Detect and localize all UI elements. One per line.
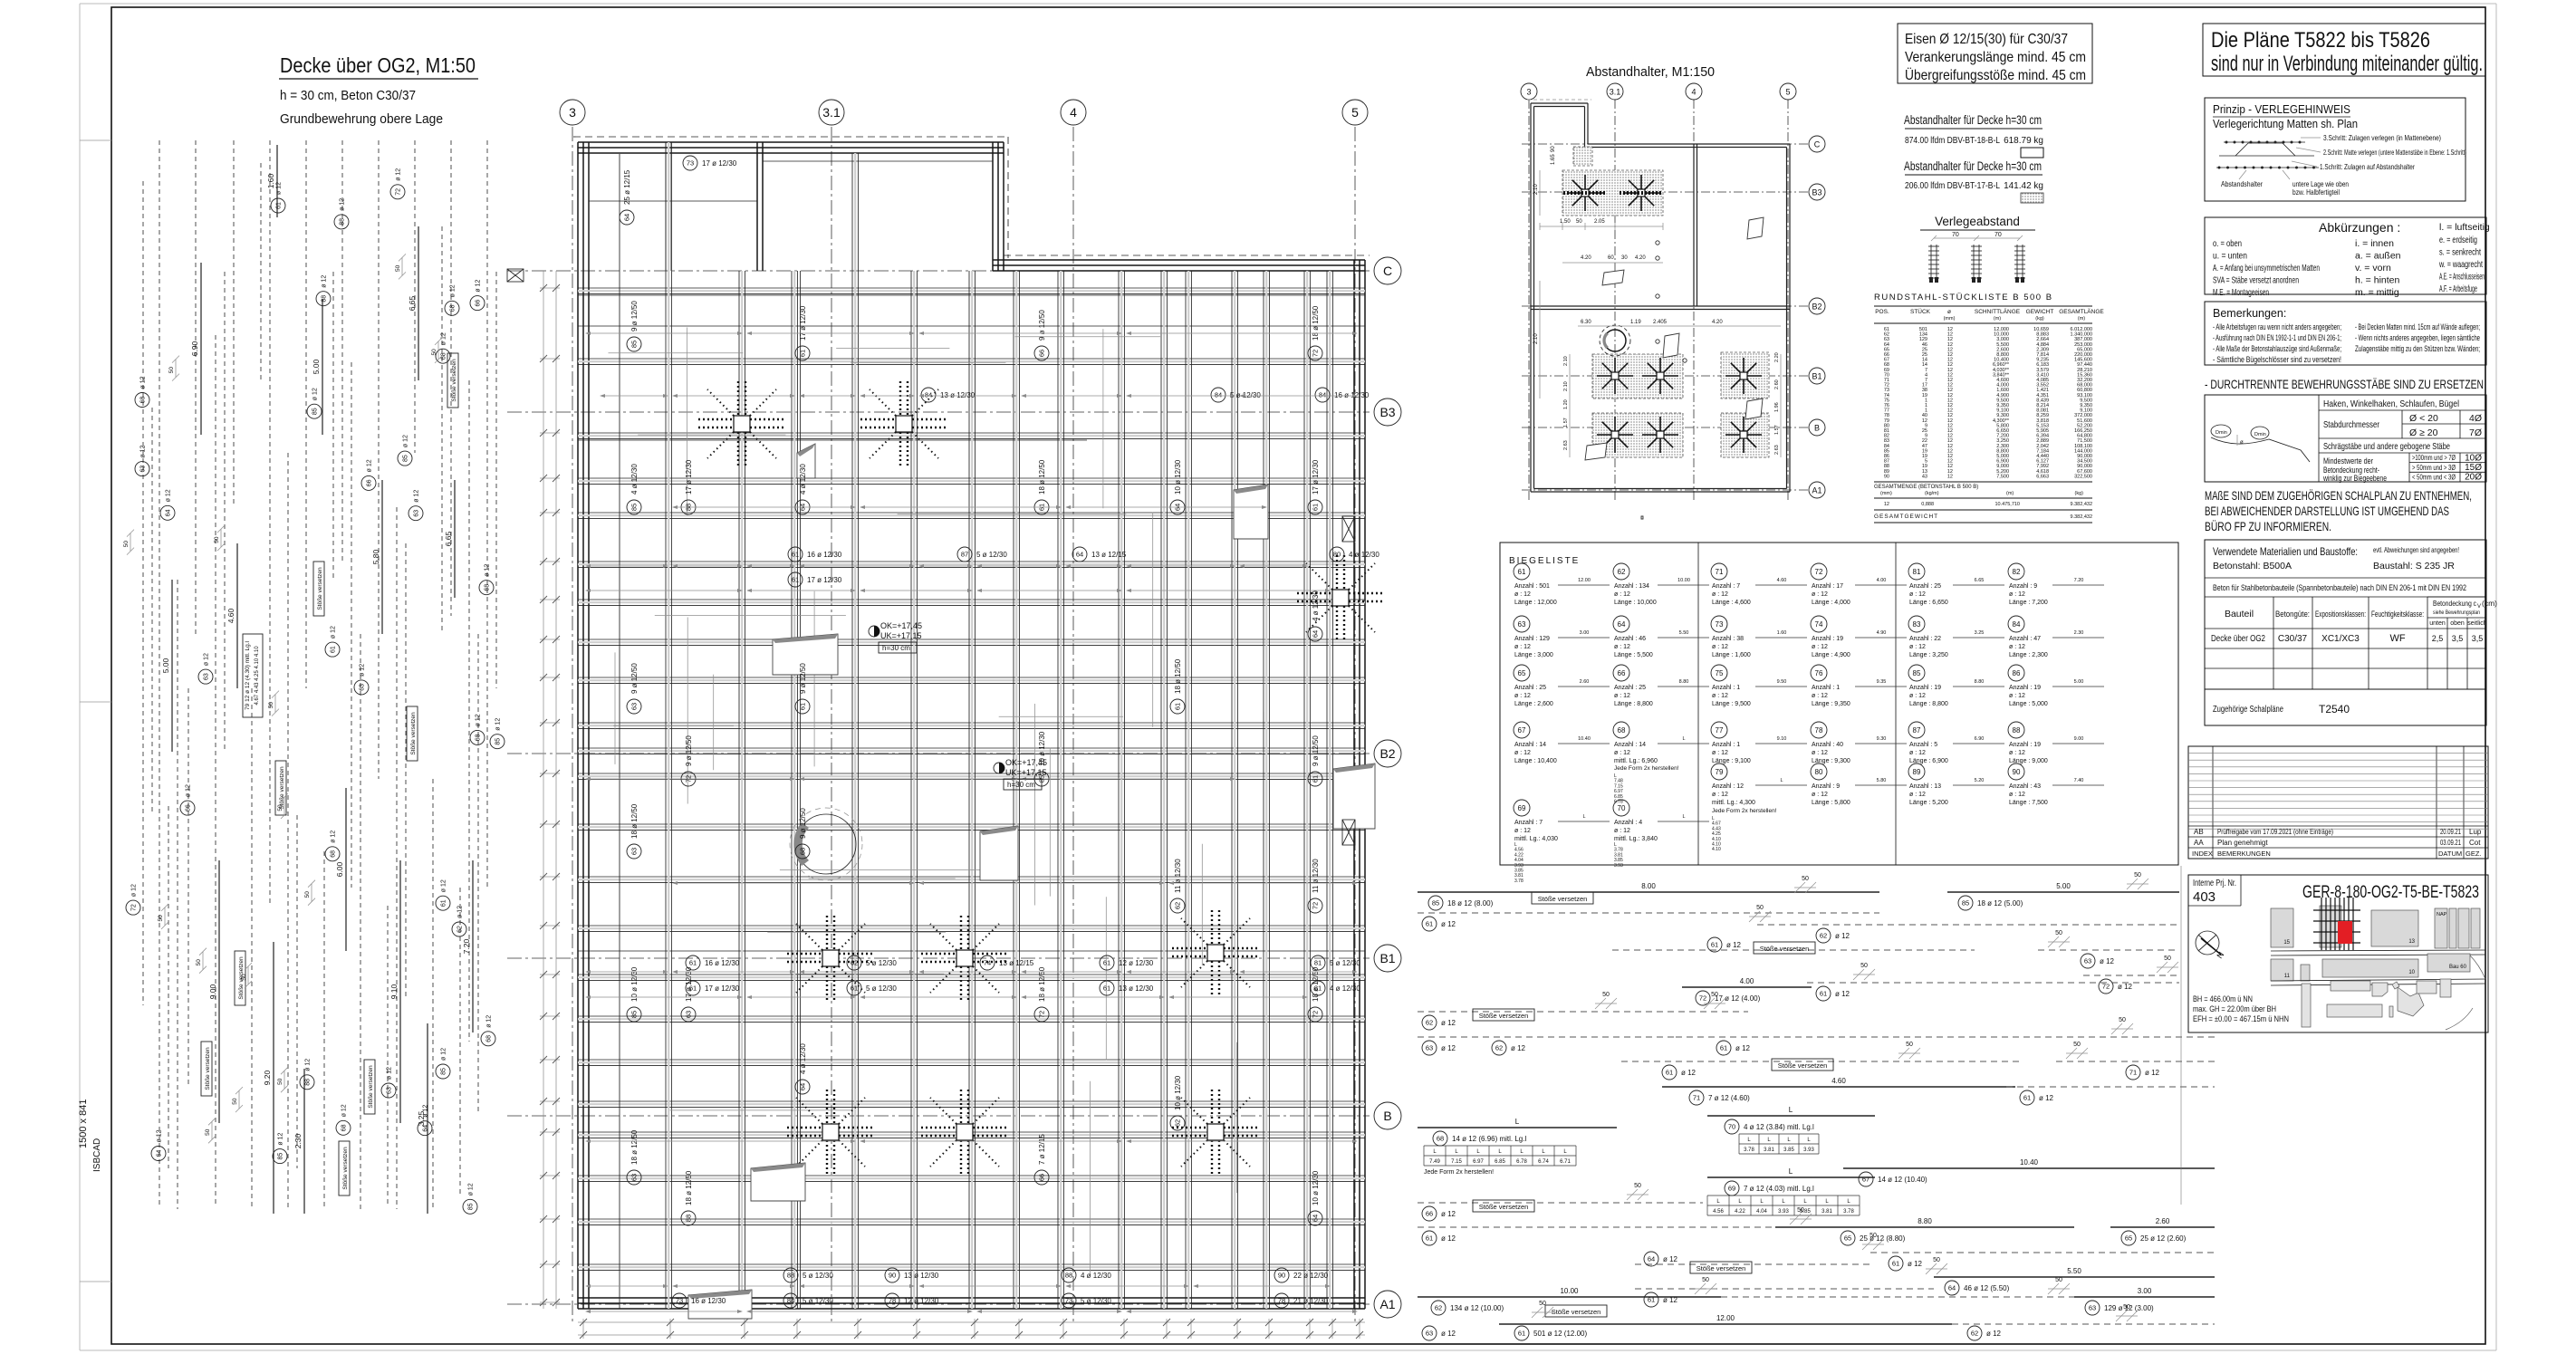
svg-text:7.49: 7.49 bbox=[1429, 1159, 1440, 1165]
svg-text:25 ø 12/15: 25 ø 12/15 bbox=[623, 169, 631, 205]
svg-text:BEMERKUNGEN: BEMERKUNGEN bbox=[2217, 850, 2271, 858]
svg-text:4 ø 12/30: 4 ø 12/30 bbox=[1349, 551, 1379, 559]
svg-text:66: 66 bbox=[1038, 350, 1046, 357]
svg-text:ø : 12: ø : 12 bbox=[1514, 828, 1531, 834]
svg-text:Stöße versetzen: Stöße versetzen bbox=[368, 1065, 374, 1109]
svg-text:ø 12: ø 12 bbox=[485, 564, 491, 577]
svg-text:UK=+17,15: UK=+17,15 bbox=[880, 631, 922, 640]
svg-text:21 ø 12/30: 21 ø 12/30 bbox=[1293, 1297, 1329, 1305]
svg-text:L: L bbox=[1780, 778, 1783, 783]
svg-text:15: 15 bbox=[2283, 940, 2290, 946]
svg-text:3.25: 3.25 bbox=[1975, 630, 1985, 636]
svg-text:DATUM: DATUM bbox=[2438, 850, 2462, 858]
svg-text:4.20: 4.20 bbox=[1712, 320, 1723, 325]
svg-text:75: 75 bbox=[1716, 669, 1724, 677]
svg-text:h. = hinten: h. = hinten bbox=[2355, 275, 2399, 286]
svg-text:WF: WF bbox=[2389, 633, 2405, 644]
svg-text:ø 12: ø 12 bbox=[331, 831, 337, 843]
svg-text:71: 71 bbox=[2129, 1069, 2137, 1077]
svg-text:ø 12: ø 12 bbox=[186, 784, 192, 797]
svg-text:16 ø 12/30: 16 ø 12/30 bbox=[705, 959, 740, 967]
svg-text:Anzahl : 47: Anzahl : 47 bbox=[2009, 636, 2041, 642]
svg-text:50: 50 bbox=[196, 959, 202, 966]
svg-text:11 ø 12/30: 11 ø 12/30 bbox=[1174, 859, 1182, 893]
svg-text:50: 50 bbox=[1602, 992, 1610, 998]
svg-text:Anzahl : 25: Anzahl : 25 bbox=[1909, 583, 1941, 590]
svg-text:12 ø 12/30: 12 ø 12/30 bbox=[904, 1297, 939, 1305]
svg-text:2.10: 2.10 bbox=[1533, 333, 1539, 344]
svg-text:62: 62 bbox=[851, 959, 858, 967]
svg-text:70: 70 bbox=[1952, 232, 1959, 238]
svg-text:Länge : 6,650: Länge : 6,650 bbox=[1909, 600, 1948, 606]
svg-text:9 ø 12/50: 9 ø 12/50 bbox=[1038, 310, 1046, 341]
svg-text:88: 88 bbox=[2013, 726, 2021, 735]
svg-text:4: 4 bbox=[1070, 105, 1077, 120]
svg-text:63: 63 bbox=[414, 510, 420, 517]
svg-text:72: 72 bbox=[1815, 568, 1823, 576]
svg-text:4.00: 4.00 bbox=[1740, 977, 1754, 985]
svg-text:71: 71 bbox=[1693, 1094, 1700, 1102]
svg-text:ø : 12: ø : 12 bbox=[1712, 591, 1728, 598]
svg-text:10 ø 12/30: 10 ø 12/30 bbox=[1312, 1170, 1320, 1205]
svg-text:61: 61 bbox=[441, 899, 447, 907]
svg-text:ø 12: ø 12 bbox=[1908, 1260, 1923, 1268]
svg-text:84: 84 bbox=[2013, 620, 2021, 629]
svg-text:GEZ.: GEZ. bbox=[2465, 850, 2482, 858]
svg-text:77: 77 bbox=[1716, 726, 1724, 735]
svg-text:BEI ABWEICHENDER DARSTELLUNG I: BEI ABWEICHENDER DARSTELLUNG IST UMGEHEN… bbox=[2205, 504, 2449, 518]
svg-text:3.81: 3.81 bbox=[1821, 1209, 1832, 1215]
svg-text:68: 68 bbox=[341, 1124, 348, 1131]
svg-text:Länge : 10,000: Länge : 10,000 bbox=[1614, 600, 1657, 606]
svg-text:A.E. = Anschlusseisen: A.E. = Anschlusseisen bbox=[2439, 272, 2485, 283]
svg-text:4.67 4.43 4.25 4.10 4.10: 4.67 4.43 4.25 4.10 4.10 bbox=[255, 646, 260, 706]
svg-text:80: 80 bbox=[1815, 768, 1823, 776]
svg-text:61: 61 bbox=[689, 959, 697, 967]
svg-text:8.80: 8.80 bbox=[1975, 679, 1985, 685]
svg-text:ø : 12: ø : 12 bbox=[1812, 644, 1828, 650]
svg-text:h=30 cm: h=30 cm bbox=[1007, 781, 1035, 789]
svg-text:Ø ≥ 20: Ø ≥ 20 bbox=[2409, 427, 2438, 438]
svg-text:63: 63 bbox=[204, 673, 210, 680]
svg-text:ø : 12: ø : 12 bbox=[1909, 750, 1926, 756]
svg-text:ø : 12: ø : 12 bbox=[1514, 750, 1531, 756]
svg-text:50: 50 bbox=[2119, 1017, 2126, 1023]
svg-text:67: 67 bbox=[1862, 1176, 1870, 1184]
svg-text:Anzahl : 9: Anzahl : 9 bbox=[1812, 783, 1840, 790]
svg-text:ø 12: ø 12 bbox=[1735, 1044, 1751, 1052]
svg-text:90: 90 bbox=[1884, 474, 1889, 479]
svg-text:Anzahl : 19: Anzahl : 19 bbox=[1812, 636, 1843, 642]
svg-text:2.30: 2.30 bbox=[2074, 630, 2084, 636]
svg-text:72: 72 bbox=[1312, 902, 1320, 909]
svg-text:7 ø 12/15: 7 ø 12/15 bbox=[1038, 1134, 1046, 1165]
svg-text:2.63: 2.63 bbox=[1774, 445, 1780, 455]
svg-text:Betondeckung c: Betondeckung c bbox=[2433, 599, 2477, 608]
svg-text:ISBCAD: ISBCAD bbox=[92, 1138, 102, 1172]
svg-text:6.97: 6.97 bbox=[1473, 1159, 1484, 1165]
svg-text:6.90: 6.90 bbox=[1975, 736, 1985, 742]
svg-text:ø : 12: ø : 12 bbox=[1712, 750, 1728, 756]
svg-text:13 ø 12/30: 13 ø 12/30 bbox=[1119, 984, 1154, 993]
svg-text:5 ø 12/30: 5 ø 12/30 bbox=[803, 1272, 833, 1280]
svg-text:ø : 12: ø : 12 bbox=[1812, 591, 1828, 598]
svg-text:90: 90 bbox=[1551, 146, 1556, 152]
svg-text:15Ø: 15Ø bbox=[2465, 463, 2482, 473]
svg-text:7.20: 7.20 bbox=[2074, 578, 2084, 583]
svg-text:63: 63 bbox=[630, 848, 639, 855]
svg-text:Länge : 4,600: Länge : 4,600 bbox=[1712, 600, 1751, 606]
svg-text:50: 50 bbox=[1756, 905, 1764, 911]
svg-text:A. = Anfang bei unsymmetrische: A. = Anfang bei unsymmetrischen Matten bbox=[2213, 263, 2320, 274]
svg-text:2.60: 2.60 bbox=[1580, 679, 1590, 685]
svg-text:< 50mm und < 3Ø: < 50mm und < 3Ø bbox=[2412, 473, 2456, 482]
svg-text:BÜRO FP ZU INFORMIEREN.: BÜRO FP ZU INFORMIEREN. bbox=[2205, 518, 2331, 533]
svg-text:12.00: 12.00 bbox=[1716, 1314, 1735, 1322]
svg-text:65: 65 bbox=[1518, 669, 1526, 677]
svg-text:Stöße versetzen: Stöße versetzen bbox=[410, 712, 417, 755]
svg-text:18 ø 12/50: 18 ø 12/50 bbox=[1174, 658, 1182, 694]
svg-text:618.79 kg: 618.79 kg bbox=[2004, 136, 2043, 146]
svg-text:Dmin: Dmin bbox=[2216, 430, 2227, 436]
svg-text:m. = mittig: m. = mittig bbox=[2355, 287, 2399, 298]
svg-text:L: L bbox=[1515, 1118, 1520, 1126]
svg-text:Anzahl : 17: Anzahl : 17 bbox=[1812, 583, 1843, 590]
svg-text:16 ø 12/30: 16 ø 12/30 bbox=[1334, 391, 1370, 399]
svg-text:206.00 lfdm DBV-BT-17-B-L: 206.00 lfdm DBV-BT-17-B-L bbox=[1905, 181, 2000, 191]
svg-text:Stöße versetzen: Stöße versetzen bbox=[1538, 895, 1588, 903]
svg-text:84: 84 bbox=[1215, 391, 1222, 399]
svg-text:5: 5 bbox=[1351, 105, 1359, 120]
svg-text:3.81: 3.81 bbox=[1764, 1148, 1774, 1153]
svg-text:61: 61 bbox=[2023, 1094, 2031, 1102]
svg-text:50: 50 bbox=[1576, 219, 1582, 225]
svg-text:ø 12: ø 12 bbox=[331, 626, 337, 639]
svg-text:Übergreifungsstöße mind. 45 cm: Übergreifungsstöße mind. 45 cm bbox=[1905, 67, 2086, 83]
svg-text:68: 68 bbox=[1437, 1135, 1444, 1143]
svg-text:Verwendete Materialien und Bau: Verwendete Materialien und Baustoffe: bbox=[2213, 545, 2358, 558]
svg-text:ø: ø bbox=[2240, 440, 2244, 446]
svg-text:ø : 12: ø : 12 bbox=[1909, 792, 1926, 798]
svg-text:ø 12: ø 12 bbox=[157, 1129, 163, 1142]
svg-text:5 ø 12/30: 5 ø 12/30 bbox=[1230, 391, 1261, 399]
svg-text:Stöße versetzen: Stöße versetzen bbox=[1778, 1061, 1828, 1070]
svg-text:h=30 cm: h=30 cm bbox=[882, 644, 910, 652]
svg-text:68: 68 bbox=[331, 850, 337, 858]
svg-text:INDEX: INDEX bbox=[2192, 850, 2213, 858]
svg-text:79 12 ø 12 (4.30) mitl. Lg.l: 79 12 ø 12 (4.30) mitl. Lg.l bbox=[245, 641, 251, 710]
svg-text:88: 88 bbox=[305, 1079, 312, 1086]
svg-text:4 ø 12 (3.84) mitl. Lg.l: 4 ø 12 (3.84) mitl. Lg.l bbox=[1744, 1123, 1814, 1131]
svg-text:5.00: 5.00 bbox=[2056, 882, 2071, 890]
svg-text:5.00: 5.00 bbox=[2074, 679, 2084, 685]
svg-text:Abstandhalter für Decke h=30 c: Abstandhalter für Decke h=30 cm bbox=[1904, 113, 2042, 127]
svg-text:Die Pläne T5822 bis T5826: Die Pläne T5822 bis T5826 bbox=[2211, 28, 2430, 53]
svg-text:ø 12: ø 12 bbox=[441, 1048, 447, 1061]
svg-text:62: 62 bbox=[1426, 1019, 1433, 1027]
svg-text:A1: A1 bbox=[1812, 486, 1821, 495]
svg-text:ø 12: ø 12 bbox=[1835, 932, 1850, 940]
svg-text:12: 12 bbox=[1947, 474, 1953, 479]
svg-text:85: 85 bbox=[278, 1153, 284, 1160]
svg-text:5.80: 5.80 bbox=[1877, 778, 1887, 783]
svg-text:- Wenn nichts anderes angegebe: - Wenn nichts anderes angegeben, liegen … bbox=[2355, 333, 2480, 342]
svg-text:61: 61 bbox=[1518, 568, 1526, 576]
svg-text:13 ø 12/30: 13 ø 12/30 bbox=[904, 1272, 939, 1280]
svg-text:9 ø 12/50: 9 ø 12/50 bbox=[630, 301, 639, 331]
svg-text:sind nur in Verbindung miteina: sind nur in Verbindung miteinander gülti… bbox=[2211, 52, 2483, 76]
svg-text:ø 12: ø 12 bbox=[305, 1059, 312, 1071]
svg-text:- Alle Maße der Betonstahlausz: - Alle Maße der Betonstahlauszüge sind A… bbox=[2213, 344, 2341, 353]
svg-text:50: 50 bbox=[268, 702, 274, 709]
svg-text:9.00: 9.00 bbox=[2074, 736, 2084, 742]
svg-text:17 ø 12/30: 17 ø 12/30 bbox=[702, 159, 737, 168]
svg-text:9.382,432: 9.382,432 bbox=[2071, 502, 2092, 507]
svg-text:64: 64 bbox=[1312, 1215, 1320, 1222]
svg-text:64: 64 bbox=[1312, 630, 1320, 638]
svg-text:61: 61 bbox=[1892, 1260, 1899, 1268]
svg-text:61: 61 bbox=[851, 984, 858, 993]
svg-text:ø : 12: ø : 12 bbox=[1712, 644, 1728, 650]
svg-text:11: 11 bbox=[2284, 974, 2291, 979]
svg-text:ø : 12: ø : 12 bbox=[2009, 644, 2025, 650]
svg-text:Dmin: Dmin bbox=[2254, 432, 2266, 437]
svg-text:GEWICHT: GEWICHT bbox=[2026, 309, 2054, 315]
svg-text:85: 85 bbox=[630, 341, 639, 348]
svg-text:2.10: 2.10 bbox=[1563, 381, 1569, 391]
svg-text:5 ø 12/30: 5 ø 12/30 bbox=[1330, 959, 1360, 967]
svg-text:63: 63 bbox=[2089, 1304, 2096, 1312]
svg-text:50: 50 bbox=[123, 541, 130, 548]
svg-text:7.15: 7.15 bbox=[1451, 1159, 1462, 1165]
svg-text:64: 64 bbox=[1648, 1255, 1655, 1263]
svg-text:Länge : 9,500: Länge : 9,500 bbox=[1712, 701, 1751, 707]
svg-text:6.30: 6.30 bbox=[1581, 320, 1591, 325]
svg-text:AA: AA bbox=[2194, 839, 2204, 847]
svg-text:seitlich: seitlich bbox=[2467, 620, 2487, 627]
svg-text:9 ø 12/50: 9 ø 12/50 bbox=[1312, 735, 1320, 766]
svg-text:Anzahl : 7: Anzahl : 7 bbox=[1514, 820, 1543, 826]
svg-text:72: 72 bbox=[1038, 1011, 1046, 1018]
svg-text:87: 87 bbox=[1913, 726, 1921, 735]
svg-text:B: B bbox=[1383, 1109, 1391, 1123]
svg-text:Verankerungslänge mind. 45 cm: Verankerungslänge mind. 45 cm bbox=[1905, 50, 2086, 65]
svg-text:OK=+17,45: OK=+17,45 bbox=[1005, 758, 1047, 767]
svg-text:50: 50 bbox=[1860, 963, 1868, 969]
svg-text:72: 72 bbox=[1312, 350, 1320, 357]
svg-text:18 ø 12 (8.00): 18 ø 12 (8.00) bbox=[1447, 899, 1494, 907]
svg-text:68: 68 bbox=[486, 1035, 493, 1042]
svg-text:2.30: 2.30 bbox=[293, 1133, 303, 1148]
svg-text:14 ø 12 (6.96) mitl. Lg.l: 14 ø 12 (6.96) mitl. Lg.l bbox=[1452, 1135, 1526, 1143]
svg-text:SCHNITTLÄNGE: SCHNITTLÄNGE bbox=[1975, 308, 2021, 315]
svg-text:64: 64 bbox=[423, 1125, 429, 1132]
svg-text:Anzahl : 46: Anzahl : 46 bbox=[1614, 636, 1646, 642]
svg-text:4: 4 bbox=[1691, 88, 1696, 97]
svg-text:ø 12: ø 12 bbox=[322, 275, 328, 288]
svg-text:6.78: 6.78 bbox=[1516, 1159, 1527, 1165]
svg-text:7.20: 7.20 bbox=[462, 938, 471, 954]
svg-text:- Alle Arbeitsfugen rau wenn n: - Alle Arbeitsfugen rau wenn nicht ander… bbox=[2213, 322, 2341, 331]
svg-text:63: 63 bbox=[140, 466, 147, 473]
svg-text:61: 61 bbox=[1312, 504, 1320, 511]
svg-text:Stöße versetzen: Stöße versetzen bbox=[317, 567, 323, 610]
svg-text:Abstandshalter: Abstandshalter bbox=[2221, 179, 2263, 188]
svg-text:ø 12: ø 12 bbox=[1986, 1330, 2002, 1338]
svg-text:B2: B2 bbox=[1812, 302, 1821, 312]
svg-text:50: 50 bbox=[168, 367, 175, 374]
svg-text:16 ø 12/30: 16 ø 12/30 bbox=[691, 1297, 726, 1305]
svg-text:72: 72 bbox=[2102, 983, 2110, 991]
svg-text:Ø < 20: Ø < 20 bbox=[2409, 413, 2438, 424]
svg-text:61: 61 bbox=[1312, 775, 1320, 783]
svg-text:Länge : 5,500: Länge : 5,500 bbox=[1614, 652, 1653, 658]
svg-text:63: 63 bbox=[630, 1174, 639, 1181]
svg-text:Schrägstäbe und andere gebogen: Schrägstäbe und andere gebogene Stäbe bbox=[2323, 441, 2450, 452]
svg-text:85: 85 bbox=[441, 1068, 447, 1075]
svg-text:Stöße versetzen: Stöße versetzen bbox=[342, 1147, 349, 1190]
svg-text:30: 30 bbox=[1621, 255, 1628, 261]
svg-text:Länge : 4,000: Länge : 4,000 bbox=[1812, 600, 1850, 606]
svg-text:B2: B2 bbox=[1379, 746, 1395, 761]
svg-text:Länge : 9,350: Länge : 9,350 bbox=[1812, 701, 1850, 707]
svg-text:61: 61 bbox=[1720, 1044, 1727, 1052]
svg-text:(mm): (mm) bbox=[1944, 316, 1956, 322]
svg-text:73: 73 bbox=[687, 159, 694, 168]
svg-text:4.90: 4.90 bbox=[1877, 630, 1887, 636]
svg-text:18 ø 12/50: 18 ø 12/50 bbox=[685, 1170, 693, 1205]
svg-text:3.78: 3.78 bbox=[1514, 879, 1523, 884]
svg-text:4.10: 4.10 bbox=[1712, 847, 1721, 852]
svg-text:Stöße versetzen: Stöße versetzen bbox=[451, 359, 457, 402]
svg-text:17 ø 12/30: 17 ø 12/30 bbox=[799, 305, 807, 341]
svg-text:50: 50 bbox=[1711, 992, 1718, 998]
svg-text:3,5: 3,5 bbox=[2472, 634, 2484, 643]
svg-text:v. = vorn: v. = vorn bbox=[2355, 263, 2391, 274]
svg-text:63: 63 bbox=[1426, 1044, 1433, 1052]
svg-text:50: 50 bbox=[1870, 1233, 1877, 1239]
svg-text:ø 12: ø 12 bbox=[1726, 941, 1742, 949]
svg-text:84: 84 bbox=[787, 1297, 794, 1305]
svg-text:w. = waagrecht: w. = waagrecht bbox=[2438, 259, 2483, 270]
svg-text:8.80: 8.80 bbox=[1918, 1217, 1932, 1225]
svg-text:i. = innen: i. = innen bbox=[2355, 238, 2394, 249]
svg-text:L: L bbox=[1789, 1167, 1793, 1176]
svg-text:Anzahl : 4: Anzahl : 4 bbox=[1614, 820, 1642, 826]
svg-text:62: 62 bbox=[1495, 1044, 1503, 1052]
svg-text:ø : 12: ø : 12 bbox=[1909, 591, 1926, 598]
svg-text:M.E. = Montageeisen: M.E. = Montageeisen bbox=[2213, 287, 2269, 298]
svg-text:(kg): (kg) bbox=[2075, 491, 2084, 496]
svg-text:4 ø 12/30: 4 ø 12/30 bbox=[799, 1043, 807, 1074]
svg-text:4 ø 12/30: 4 ø 12/30 bbox=[630, 464, 639, 495]
svg-text:3: 3 bbox=[1526, 88, 1531, 97]
svg-text:ø 12: ø 12 bbox=[1511, 1044, 1526, 1052]
svg-text:64: 64 bbox=[1076, 551, 1083, 559]
svg-text:ø 12: ø 12 bbox=[441, 879, 447, 892]
svg-text:Anzahl : 25: Anzahl : 25 bbox=[1614, 685, 1646, 691]
svg-text:134 ø 12 (10.00): 134 ø 12 (10.00) bbox=[1450, 1304, 1504, 1312]
svg-text:RUNDSTAHL-STÜCKLISTE B 500 B: RUNDSTAHL-STÜCKLISTE B 500 B bbox=[1874, 293, 2053, 302]
svg-text:ø: ø bbox=[1947, 309, 1951, 315]
svg-text:03.09.21: 03.09.21 bbox=[2440, 839, 2461, 847]
svg-text:STÜCK: STÜCK bbox=[1910, 308, 1931, 315]
svg-text:Feuchtigkeitsklasse:: Feuchtigkeitsklasse: bbox=[2371, 610, 2424, 619]
svg-text:70: 70 bbox=[1994, 232, 2002, 238]
svg-text:ø : 12: ø : 12 bbox=[2009, 693, 2025, 699]
svg-text:2.05: 2.05 bbox=[1594, 219, 1605, 225]
svg-text:13 ø 12/15: 13 ø 12/15 bbox=[999, 959, 1034, 967]
svg-text:ø 12: ø 12 bbox=[476, 279, 482, 292]
svg-text:ø : 12: ø : 12 bbox=[1712, 693, 1728, 699]
svg-text:62: 62 bbox=[1820, 932, 1827, 940]
svg-text:2.63: 2.63 bbox=[1563, 440, 1569, 450]
svg-text:62: 62 bbox=[1435, 1304, 1442, 1312]
svg-text:ø : 12: ø : 12 bbox=[1514, 693, 1531, 699]
svg-text:60: 60 bbox=[1608, 255, 1614, 261]
svg-text:63: 63 bbox=[630, 703, 639, 710]
svg-text:88: 88 bbox=[340, 218, 346, 226]
svg-text:2.10: 2.10 bbox=[1563, 356, 1569, 366]
svg-text:4 ø 12/30: 4 ø 12/30 bbox=[1330, 984, 1360, 993]
svg-text:NAP: NAP bbox=[2437, 912, 2447, 917]
svg-text:ø 12: ø 12 bbox=[403, 435, 409, 447]
svg-text:78: 78 bbox=[889, 1297, 896, 1305]
svg-text:3.Schritt: Zulagen verlegen (i: 3.Schritt: Zulagen verlegen (in Matteneb… bbox=[2323, 133, 2441, 142]
svg-text:61: 61 bbox=[1174, 703, 1182, 710]
svg-text:71: 71 bbox=[1716, 568, 1724, 576]
svg-text:20Ø: 20Ø bbox=[2465, 473, 2482, 483]
svg-text:Abstandhalter für Decke h=30 c: Abstandhalter für Decke h=30 cm bbox=[1904, 159, 2042, 173]
svg-text:evtl. Abweichungen sind angege: evtl. Abweichungen sind angegeben! bbox=[2373, 545, 2459, 554]
svg-text:Anzahl : 7: Anzahl : 7 bbox=[1712, 583, 1740, 590]
svg-text:7 ø 12 (4.03) mitl. Lg.l: 7 ø 12 (4.03) mitl. Lg.l bbox=[1744, 1185, 1814, 1193]
svg-text:64: 64 bbox=[157, 1150, 163, 1157]
svg-text:3.78: 3.78 bbox=[1843, 1209, 1854, 1215]
svg-text:ø 12: ø 12 bbox=[486, 1015, 493, 1028]
svg-text:22 ø 12/30: 22 ø 12/30 bbox=[1293, 1272, 1329, 1280]
svg-text:ø 12: ø 12 bbox=[495, 718, 502, 731]
svg-text:ø 12: ø 12 bbox=[1835, 990, 1850, 998]
svg-text:64: 64 bbox=[799, 1083, 807, 1090]
svg-text:Stabdurchmesser: Stabdurchmesser bbox=[2323, 419, 2379, 430]
svg-text:Baustahl: S 235 JR: Baustahl: S 235 JR bbox=[2373, 561, 2455, 571]
svg-text:9.00: 9.00 bbox=[208, 984, 217, 999]
svg-text:10 ø 12/30: 10 ø 12/30 bbox=[1174, 1075, 1182, 1110]
svg-text:68: 68 bbox=[476, 734, 482, 741]
svg-text:ø 12: ø 12 bbox=[457, 906, 464, 918]
svg-text:C30/37: C30/37 bbox=[2278, 634, 2308, 644]
svg-text:2.405: 2.405 bbox=[1653, 320, 1668, 325]
svg-text:5.20: 5.20 bbox=[1975, 778, 1985, 783]
svg-text:Plan genehmigt: Plan genehmigt bbox=[2217, 839, 2268, 847]
svg-text:ø 12: ø 12 bbox=[1663, 1255, 1678, 1263]
svg-text:OK=+17,45: OK=+17,45 bbox=[880, 621, 922, 630]
svg-text:25 ø 12 (2.60): 25 ø 12 (2.60) bbox=[2140, 1234, 2187, 1243]
svg-text:4.60: 4.60 bbox=[1777, 578, 1787, 583]
svg-text:ø 12: ø 12 bbox=[2118, 983, 2133, 991]
svg-text:63: 63 bbox=[1426, 1330, 1433, 1338]
svg-text:62: 62 bbox=[1971, 1330, 1978, 1338]
svg-text:Länge : 5,200: Länge : 5,200 bbox=[1909, 800, 1948, 806]
svg-text:6,663: 6,663 bbox=[2036, 474, 2049, 479]
svg-text:ø 12: ø 12 bbox=[2145, 1069, 2160, 1077]
svg-text:12: 12 bbox=[1884, 502, 1889, 507]
svg-text:61: 61 bbox=[1666, 1069, 1673, 1077]
svg-text:61: 61 bbox=[792, 551, 799, 559]
svg-text:Anzahl : 9: Anzahl : 9 bbox=[2009, 583, 2037, 590]
svg-text:MAßE SIND DEM ZUGEHÖRIGEN SCHA: MAßE SIND DEM ZUGEHÖRIGEN SCHALPLAN ZU E… bbox=[2205, 487, 2472, 503]
